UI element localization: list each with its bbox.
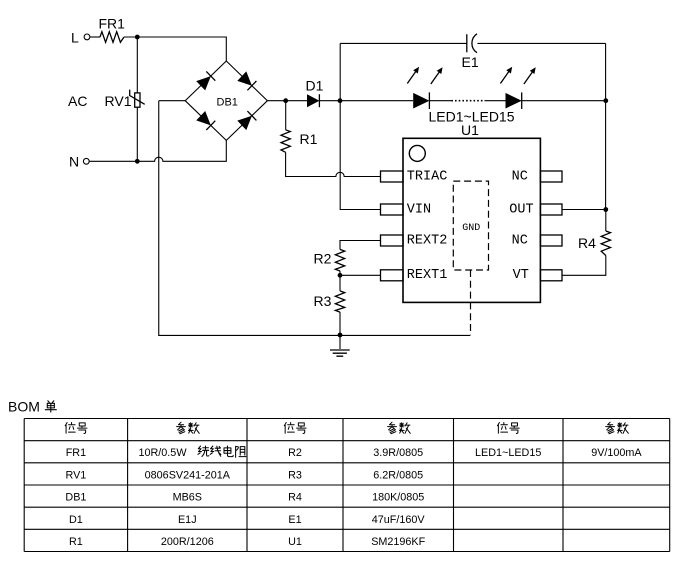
wire node to REXT1 [340,274,381,276]
svg-text:DB1: DB1 [217,96,238,108]
dotted continuation [451,100,485,102]
diode in DB1 upper-right [237,71,252,85]
diode in DB1 lower-right [237,116,252,130]
row 3 [65,492,424,504]
wire REXT2 to R2 [340,241,381,250]
capacitor E1 [462,34,479,70]
BOM title [8,399,56,415]
node R2/R3/REXT1 [338,273,343,278]
wire bridge left vertex to long vertical [159,100,185,102]
varistor RV1 [105,90,145,109]
wire R4 to VT [562,256,606,276]
wire top-left vertical (top rail to VIN) [340,43,380,209]
wire R2 to node [339,271,341,275]
wire long vertical to ground rail [159,101,470,336]
svg-text:R2: R2 [314,251,332,267]
pin REXT1 [381,268,448,283]
pin OUT [509,202,562,217]
wire D1 to LED node [319,100,340,102]
wire N with hop over vertical [89,140,226,161]
svg-text:3.9R/0805: 3.9R/0805 [373,447,423,459]
wire LED node to LED1 [340,100,413,102]
svg-text:VIN: VIN [407,202,431,217]
pin VT [513,268,562,283]
terminal N [69,154,89,170]
bridge DB1 [185,61,267,140]
svg-text:MB6S: MB6S [173,492,202,504]
svg-text:AC: AC [68,93,87,109]
svg-text:R1: R1 [69,536,83,548]
svg-text:FR1: FR1 [99,16,126,32]
svg-text:6.2R/0805: 6.2R/0805 [373,469,423,481]
svg-text:TRIAC: TRIAC [407,169,448,184]
resistor R4 [578,210,611,256]
resistor R1 [281,101,318,153]
svg-text:REXT2: REXT2 [407,233,448,248]
wire dots to LED15 [485,100,506,102]
wire LED15 to right node [522,100,606,102]
svg-text:180K/0805: 180K/0805 [372,492,424,504]
terminal L [71,30,90,46]
row 4 [69,514,425,526]
node LED left [338,98,343,103]
pin TRIAC [381,169,448,184]
wire L to FR1 [90,36,100,38]
svg-text:RV1: RV1 [65,469,86,481]
resistor R2 [314,249,345,271]
row 5 [69,536,426,548]
GND dashed block [453,181,488,270]
svg-text:E1: E1 [288,514,301,526]
wire top rail [340,42,605,44]
diode in DB1 upper-left [196,76,211,90]
row 2 [65,469,423,481]
svg-text:OUT: OUT [509,202,533,217]
diode in DB1 lower-left [196,111,211,125]
svg-text:47uF/160V: 47uF/160V [372,514,426,526]
svg-text:D1: D1 [306,78,324,94]
wire R3 to ground rail [339,312,341,335]
svg-text:R4: R4 [578,235,596,251]
svg-text:L: L [71,30,79,46]
LED LED1 [407,67,442,109]
node N junction [135,159,140,164]
pin REXT2 [381,233,448,248]
svg-text:N: N [69,154,79,170]
pin VIN [381,202,432,217]
svg-text:VT: VT [513,268,529,283]
svg-text:DB1: DB1 [65,492,86,504]
svg-text:E1: E1 [462,54,479,70]
svg-text:200R/1206: 200R/1206 [161,536,214,548]
svg-text:R2: R2 [288,447,302,459]
table grid [24,419,670,552]
wire right vertical (top rail to OUT node) [605,43,607,209]
wire LED1 to dots [429,100,451,102]
svg-text:RV1: RV1 [105,93,132,109]
svg-text:FR1: FR1 [66,447,86,459]
header cells [65,422,628,434]
svg-text:LED1~LED15: LED1~LED15 [475,447,541,459]
svg-text:BOM: BOM [8,399,40,415]
wire FR1 to bridge top [124,37,226,61]
node FR1/RV1 junction [135,35,140,40]
svg-text:REXT1: REXT1 [407,268,448,283]
wire junction down to RV1 [136,37,138,93]
svg-text:E1J: E1J [178,514,197,526]
resistor FR1 [99,16,126,43]
svg-text:10R/0.5W: 10R/0.5W [139,447,188,459]
svg-text:GND: GND [462,223,480,234]
node OUT junction [603,207,608,212]
wire R1 to TRIAC with hop [286,152,381,176]
pin NC top [512,169,562,184]
svg-text:0806SV241-201A: 0806SV241-201A [145,469,231,481]
ground [330,335,350,356]
svg-text:R1: R1 [300,131,318,147]
wire bridge to D1 [267,100,307,102]
node D1 anode / R1 top [283,98,288,103]
svg-text:U1: U1 [288,536,302,548]
row 1 [66,446,643,459]
svg-text:9V/100mA: 9V/100mA [591,447,642,459]
svg-text:NC: NC [512,233,528,248]
svg-text:R3: R3 [288,469,302,481]
svg-text:SM2196KF: SM2196KF [371,536,425,548]
svg-text:D1: D1 [69,514,83,526]
op-amp U1 body [403,122,540,302]
svg-text:R3: R3 [314,293,332,309]
diode D1 [306,78,324,108]
node ground junction [338,333,343,338]
wire OUT to right vertical [562,209,606,211]
svg-text:U1: U1 [461,122,479,138]
dashed GND wire to ground rail [470,270,472,335]
wire RV1 to N [136,107,138,161]
LED LED15 [429,67,536,125]
resistor R3 [314,275,345,312]
pin NC bottom [512,233,562,248]
svg-text:NC: NC [512,169,528,184]
node LED right [603,98,608,103]
svg-text:R4: R4 [288,492,302,504]
